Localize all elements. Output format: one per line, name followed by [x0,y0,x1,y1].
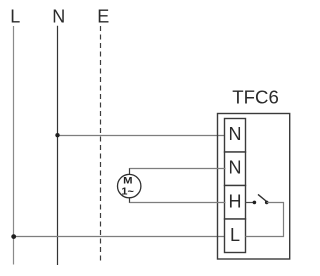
svg-text:N: N [52,7,65,27]
switch blade (open) [258,194,267,201]
svg-text:L: L [10,7,20,27]
node E label [97,7,109,27]
terminal N2 [225,152,246,186]
junction dot on N line [55,133,59,137]
wire N line to terminal N1 [58,135,226,137]
svg-text:M: M [123,175,132,186]
motor M1 (fan motor, 1-phase) [118,174,141,197]
svg-text:H: H [229,191,242,211]
svg-text:1~: 1~ [121,186,134,197]
label TFC6 [232,86,278,107]
wire terminal H to switch contact [245,202,254,204]
svg-text:N: N [229,124,242,144]
wire switch to terminal L (return loop) [245,203,283,237]
terminal H [225,186,246,220]
box TFC6 enclosure [218,114,290,260]
node L label [10,7,20,27]
wire motor top stub [129,168,131,175]
wire N supply line [57,26,59,265]
wire motor to terminal N2 [130,168,226,170]
wire E earth line (dashed) [100,26,102,263]
wire motor to terminal H [130,202,226,204]
wire L supply line [13,26,15,265]
switch contact dot left [253,201,257,205]
svg-text:TFC6: TFC6 [232,86,278,107]
wire motor bottom stub [129,198,131,203]
node N label [52,7,65,27]
svg-text:L: L [230,225,240,245]
switch contact dot right [265,201,269,205]
terminal N1 [225,119,246,153]
svg-text:E: E [97,7,109,27]
terminal L [225,219,246,253]
junction dot on L line [11,234,16,239]
svg-text:N: N [229,158,242,178]
wire L line to terminal L [14,236,226,238]
